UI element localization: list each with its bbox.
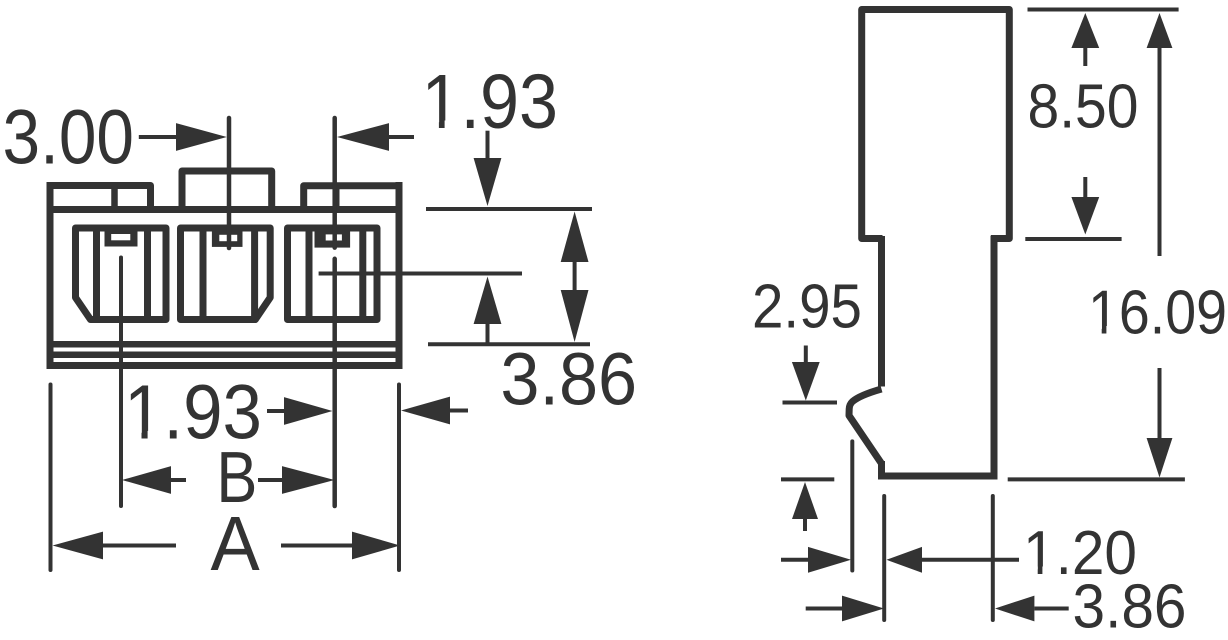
1.93 left-pointing arrow: [337, 123, 389, 151]
latch: [849, 389, 882, 464]
cavity 3 slot: [315, 228, 351, 248]
svg-text:3.86: 3.86: [500, 337, 637, 420]
extension line narrow left edge: [882, 496, 886, 620]
body left edge: [47, 182, 54, 369]
reference line T1: [1028, 8, 1179, 12]
3.00 arrow: [139, 135, 176, 139]
svg-text:8.50: 8.50: [1028, 72, 1139, 142]
right tab top: [304, 186, 403, 210]
left tab top: [47, 186, 151, 210]
extension line narrow right edge: [991, 496, 995, 620]
reference line R1 (latch point level): [783, 401, 838, 405]
narrow portion left edge upper: [878, 236, 885, 387]
svg-text:2.95: 2.95: [752, 271, 862, 341]
2.95 up arrow: [792, 482, 818, 519]
center tab: [182, 171, 272, 210]
8.50 down arrow: [1083, 177, 1087, 198]
left tab divider: [111, 186, 118, 210]
latch extension line: [850, 441, 854, 570]
cavity 2 bar left: [200, 228, 207, 320]
cavity 1 outline (chamfer bottom-left): [76, 228, 167, 320]
svg-text:3.00: 3.00: [3, 95, 135, 181]
svg-text:A: A: [211, 501, 261, 587]
16.09 dimension line upper with up arrowhead: [1147, 13, 1173, 48]
cavity 3 outline: [288, 228, 378, 320]
side view top box: [862, 10, 1010, 239]
1.20 left arrow: [781, 558, 808, 562]
1.20 right arrow: [887, 547, 923, 573]
1.93 bottom arrow: [267, 409, 284, 413]
body right edge: [396, 182, 403, 369]
svg-text:1.93: 1.93: [422, 59, 559, 145]
cavity 1 bar right: [144, 228, 151, 320]
cavity 3 bar right: [359, 228, 366, 320]
cavity 2 outline (chamfer bottom-right): [181, 228, 271, 320]
dimension line V2 upper (1.93 center line): [332, 118, 337, 248]
3.86 double arrow: [561, 212, 589, 263]
B left arrow: [122, 466, 171, 494]
right tab divider: [333, 186, 340, 210]
side view bottom edge: [878, 473, 998, 480]
reference line H1: [426, 207, 592, 211]
cavity 1 bar left: [93, 228, 100, 320]
reference line R3: [1008, 477, 1185, 481]
cavity 1 slot: [105, 228, 138, 247]
body bottom inner line 1: [54, 341, 396, 348]
extension line A left: [49, 385, 53, 571]
reference line H3: [428, 342, 590, 346]
narrow portion right edge: [991, 236, 998, 479]
reference line R2 (bottom level left): [781, 477, 834, 481]
cavity 1 slot window: [111, 234, 130, 240]
16.09 dimension line lower with down arrowhead: [1158, 368, 1162, 440]
body main top line: [47, 206, 403, 213]
2.95 down arrow: [804, 346, 808, 363]
dimension line V1 (3.00 center line): [227, 118, 232, 248]
reference line H2: [319, 272, 522, 276]
cavity 1 center tick + extension line: [119, 258, 123, 507]
cavity 3 bar left: [306, 228, 313, 320]
up arrow to H2: [474, 277, 502, 325]
body bottom inner line 2: [54, 351, 396, 358]
svg-text:16.09: 16.09: [1088, 278, 1227, 348]
body bottom edge: [47, 362, 403, 369]
svg-text:3.86: 3.86: [1073, 572, 1187, 640]
cavity 2 bar right: [251, 228, 258, 320]
A left arrow: [53, 532, 104, 560]
A right arrow: [281, 544, 352, 548]
3.86 bottom left arrow: [806, 607, 842, 611]
cavity 2 slot window: [219, 235, 237, 241]
dimension line V2 lower: [332, 259, 337, 506]
B right arrow: [258, 478, 282, 482]
cavity 3 slot window: [326, 234, 342, 240]
1.93 bottom left-pointing arrow at right edge: [401, 397, 450, 425]
cavity 2 slot: [212, 228, 243, 247]
1.93 down arrow to H1: [486, 131, 490, 158]
extension line A right: [397, 385, 401, 571]
8.50 up arrow: [1071, 13, 1099, 48]
3.86 bottom right arrow: [995, 596, 1034, 622]
reference line T2: [1025, 237, 1121, 241]
narrow portion left edge lower: [878, 461, 885, 477]
